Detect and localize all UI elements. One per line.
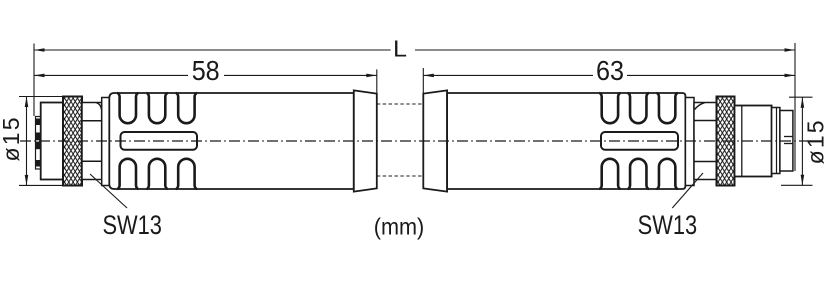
leader SW13 left (90, 174, 127, 208)
molded grip body (right) (447, 93, 685, 189)
washer ring (left) (102, 98, 110, 186)
label slot (left body) (121, 132, 198, 150)
svg-text:58: 58 (192, 55, 220, 86)
extension line mid-left (x=376.8) (376, 69, 378, 93)
top grooves (right body) (599, 93, 677, 123)
dimension 58 (34, 74, 377, 76)
hex SW13 (left) (82, 103, 102, 180)
washer ring (right) (685, 98, 694, 186)
sleeve flare (left) (354, 90, 377, 191)
centerline (20, 140, 808, 142)
svg-text:63: 63 (596, 55, 624, 86)
label slot (right body) (601, 132, 678, 150)
cable break dotted lines (377, 103, 424, 105)
bottom grooves (left body) (117, 159, 197, 189)
dimension dia15 right (781, 97, 813, 185)
tip face (780, 111, 793, 172)
coupling nut front cap (left) (41, 103, 63, 180)
svg-text:ø15: ø15 (803, 120, 829, 164)
extension line right (x=795) (794, 43, 796, 171)
threaded barrel M12 (right) (735, 106, 772, 177)
svg-text:ø15: ø15 (0, 118, 24, 162)
hex SW13 (right) (694, 103, 717, 180)
svg-text:L: L (393, 36, 407, 62)
dimension L (34, 49, 795, 51)
socket insert detail (left connector front) (36, 117, 41, 170)
thread relief line (741, 106, 743, 177)
dimension 63 (423, 74, 795, 76)
tip ring (772, 108, 780, 174)
knurled ring (left) (63, 97, 82, 186)
svg-text:SW13: SW13 (638, 210, 698, 240)
leader SW13 right (672, 173, 703, 208)
extension line mid-right (x=423.3) (422, 68, 424, 94)
center pin (784, 136, 793, 138)
sleeve flare (right) (423, 90, 447, 191)
knurled ring (right) (717, 97, 735, 186)
top grooves (left body) (117, 93, 197, 123)
extension line left (x=34) (33, 44, 35, 117)
bottom grooves (right body) (599, 159, 677, 189)
dimension dia15 left (19, 97, 63, 186)
svg-text:(mm): (mm) (374, 214, 425, 240)
molded grip body (left) (109, 93, 353, 189)
svg-text:SW13: SW13 (102, 210, 162, 240)
